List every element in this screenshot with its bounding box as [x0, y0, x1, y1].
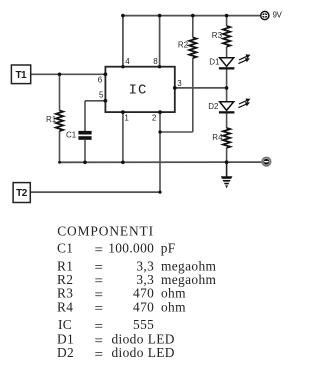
svg-text:6: 6	[98, 76, 103, 85]
svg-text:R4: R4	[212, 133, 223, 142]
svg-text:ohm: ohm	[161, 286, 186, 301]
svg-text:470: 470	[133, 299, 154, 314]
wire: pin-3 node to D2 anode	[226, 88, 228, 102]
resistor R3	[223, 26, 230, 47]
svg-text:R3: R3	[212, 31, 223, 40]
ground symbol	[221, 176, 233, 188]
svg-text:8: 8	[153, 57, 158, 66]
junction: pin 3 at IC edge	[173, 86, 177, 90]
parts list row R2	[57, 272, 216, 290]
wire: D1 cathode to pin-3 node	[226, 69, 228, 88]
parts list row C1	[57, 241, 176, 259]
parts list row D2	[57, 345, 175, 363]
svg-text:9V: 9V	[273, 11, 283, 20]
svg-text:R2: R2	[178, 41, 189, 50]
junction: pin-3 wire / LED string	[225, 86, 229, 90]
wire: R1 lower lead to ground rail	[59, 131, 61, 162]
junction: pin-2 vertical / R2 branch	[158, 130, 161, 133]
svg-text:D1: D1	[209, 58, 220, 67]
wire: pin 1 drop to ground rail	[122, 112, 124, 162]
wire: D2 cathode to R4	[226, 114, 228, 129]
svg-text:C1: C1	[57, 241, 73, 256]
junction: pin-6 node / R1	[58, 73, 62, 77]
LED D2	[219, 102, 235, 114]
svg-text:100.000: 100.000	[108, 241, 154, 256]
wire: ground symbol stem	[226, 162, 228, 176]
svg-text:pF: pF	[161, 241, 176, 256]
svg-text:=: =	[95, 347, 103, 363]
wire: R2 lower lead (crosses pin 3 wire, no junction)	[192, 58, 194, 132]
resistor R1	[56, 111, 63, 132]
svg-text:T2: T2	[16, 188, 28, 199]
svg-text:470: 470	[133, 286, 154, 301]
svg-text:2: 2	[152, 113, 157, 122]
light arrows of D1	[238, 55, 249, 64]
svg-text:C1: C1	[66, 131, 77, 140]
wire: pin 4 drop from supply rail	[122, 16, 124, 67]
parts list row R1	[57, 258, 216, 276]
parts list row IC	[58, 317, 154, 335]
svg-text:=: =	[95, 242, 103, 258]
wire: R2 upper lead from supply rail	[192, 16, 194, 38]
resistor R2	[189, 38, 196, 59]
svg-text:diodo: diodo	[112, 345, 144, 360]
svg-text:R3: R3	[57, 286, 73, 301]
junction: supply rail / R2	[191, 14, 195, 18]
wire: pin 8 drop from supply rail	[159, 16, 161, 67]
terminal T1	[11, 65, 30, 84]
svg-text:=: =	[95, 301, 103, 317]
svg-text:R4: R4	[57, 299, 73, 314]
svg-text:1: 1	[124, 114, 129, 123]
svg-text:IC: IC	[58, 317, 72, 332]
junction: pin 1 at IC edge	[121, 110, 125, 114]
parts list row D1	[57, 332, 175, 350]
LED D1	[219, 58, 235, 70]
terminal: +9V binding post	[261, 11, 269, 19]
resistor R4	[223, 128, 230, 148]
junction: pin 4 at IC edge	[121, 65, 124, 68]
junction: pin 5 at IC edge	[104, 99, 108, 103]
wire: +9V supply rail (top)	[123, 15, 261, 17]
svg-text:D2: D2	[57, 345, 74, 360]
svg-text:R1: R1	[46, 115, 57, 124]
svg-text:T1: T1	[15, 70, 27, 81]
light arrows of D2	[238, 99, 249, 108]
parts list row R3	[57, 286, 186, 304]
svg-text:4: 4	[125, 57, 130, 66]
svg-text:=: =	[95, 319, 103, 335]
wire: ground rail (bottom horizontal)	[60, 161, 263, 163]
svg-text:555: 555	[133, 317, 154, 332]
parts list row R4	[57, 299, 186, 317]
IC box U1 (555)	[105, 67, 174, 112]
svg-text:3: 3	[177, 79, 182, 88]
junction: pin 6 at IC edge	[104, 72, 108, 76]
junction: supply rail / R3	[225, 14, 229, 18]
svg-text:D2: D2	[208, 102, 219, 111]
junction: T2 wire corner	[158, 191, 161, 194]
wire: pin 3 output to LED string	[175, 87, 227, 89]
wire: C1 upper lead	[84, 101, 86, 131]
junction: pin 2 at IC edge	[158, 110, 162, 114]
wire: R1 upper lead from pin-6 node	[59, 74, 61, 110]
junction: ground rail / pin 1	[121, 161, 125, 165]
wire: R3 to D1 anode	[226, 47, 228, 58]
junction: supply rail / pin 8	[158, 14, 162, 18]
junction: ground rail / R4-ground	[225, 160, 229, 164]
wire: T2 to pin-2 vertical	[30, 191, 160, 193]
junction: ground rail / C1	[83, 161, 87, 165]
junction: supply rail corner at pin 4	[121, 14, 125, 18]
wire: T1 to pin 6	[31, 73, 106, 75]
terminal T2	[13, 183, 30, 203]
wire: R3 upper lead from supply rail	[226, 16, 228, 26]
svg-text:5: 5	[99, 90, 104, 99]
svg-text:COMPONENTI: COMPONENTI	[57, 224, 154, 239]
wire: R4 lower lead to ground rail	[226, 148, 228, 162]
wire: pin 5 stub to C1	[85, 100, 105, 102]
svg-text:ohm: ohm	[161, 299, 186, 314]
junction: ground rail corner at R1	[58, 161, 61, 164]
svg-text:LED: LED	[148, 345, 175, 360]
wire: C1 lower lead to ground rail	[84, 140, 86, 163]
terminal: ground binding post	[262, 157, 270, 165]
wire: pin 2 branch to R2 bottom	[160, 131, 193, 133]
junction: pin 8 at IC edge	[158, 65, 161, 68]
wire: pin 2 vertical down to T2 wire (crosses ground rail)	[159, 112, 161, 192]
svg-text:IC: IC	[129, 82, 148, 98]
capacitor C1	[78, 131, 91, 140]
